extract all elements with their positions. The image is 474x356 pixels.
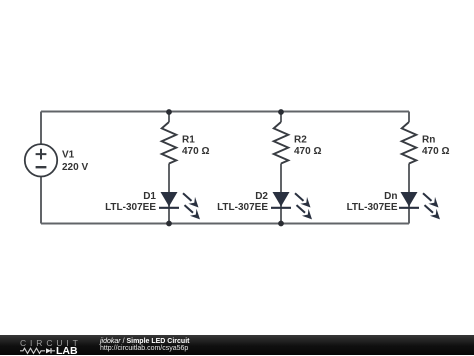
svg-text:Rn: Rn xyxy=(422,135,435,146)
svg-text:D2: D2 xyxy=(255,191,268,202)
svg-text:LTL-307EE: LTL-307EE xyxy=(347,202,398,213)
svg-text:R2: R2 xyxy=(294,135,307,146)
svg-text:LTL-307EE: LTL-307EE xyxy=(217,202,268,213)
svg-text:LAB: LAB xyxy=(56,347,78,356)
svg-text:R1: R1 xyxy=(182,135,195,146)
svg-text:D1: D1 xyxy=(143,191,156,202)
svg-text:470 Ω: 470 Ω xyxy=(294,146,321,157)
svg-text:220 V: 220 V xyxy=(62,162,88,173)
svg-text:V1: V1 xyxy=(62,150,75,161)
svg-text:Dn: Dn xyxy=(384,191,397,202)
svg-text:470 Ω: 470 Ω xyxy=(422,146,449,157)
svg-text:LTL-307EE: LTL-307EE xyxy=(105,202,156,213)
svg-text:470 Ω: 470 Ω xyxy=(182,146,209,157)
